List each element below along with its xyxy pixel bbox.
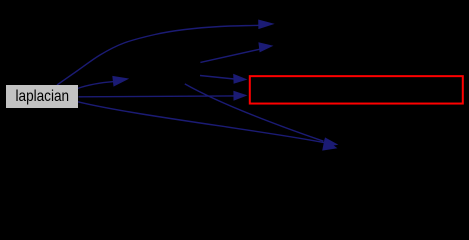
edge laplacian->node4 (bottom) wire	[78, 102, 324, 143]
edge laplacian->node2 arrowhead	[112, 76, 129, 87]
edge node2->rednode arrowhead	[233, 74, 247, 84]
edge node2->node4 arrowhead	[322, 139, 337, 151]
node rednode (truncated node, red border, black interior)	[250, 76, 463, 103]
edge laplacian->rednode wire	[79, 95, 234, 98]
edge node2->node3 wire	[200, 49, 259, 62]
edge node2->rednode wire	[200, 76, 234, 80]
edge node2->node3 arrowhead	[258, 42, 273, 52]
svg-text:laplacian: laplacian	[16, 88, 70, 105]
node laplacian (root, grey box)	[6, 85, 78, 108]
edge laplacian->node1 arrowhead	[258, 20, 275, 30]
edge laplacian->node2 wire	[78, 82, 114, 89]
edge laplacian->rednode arrowhead	[233, 91, 247, 101]
edge node2->node4 wire	[185, 84, 324, 141]
edge laplacian->node1 (top) wire	[57, 25, 259, 85]
edge laplacian->node4 arrowhead	[323, 137, 338, 147]
